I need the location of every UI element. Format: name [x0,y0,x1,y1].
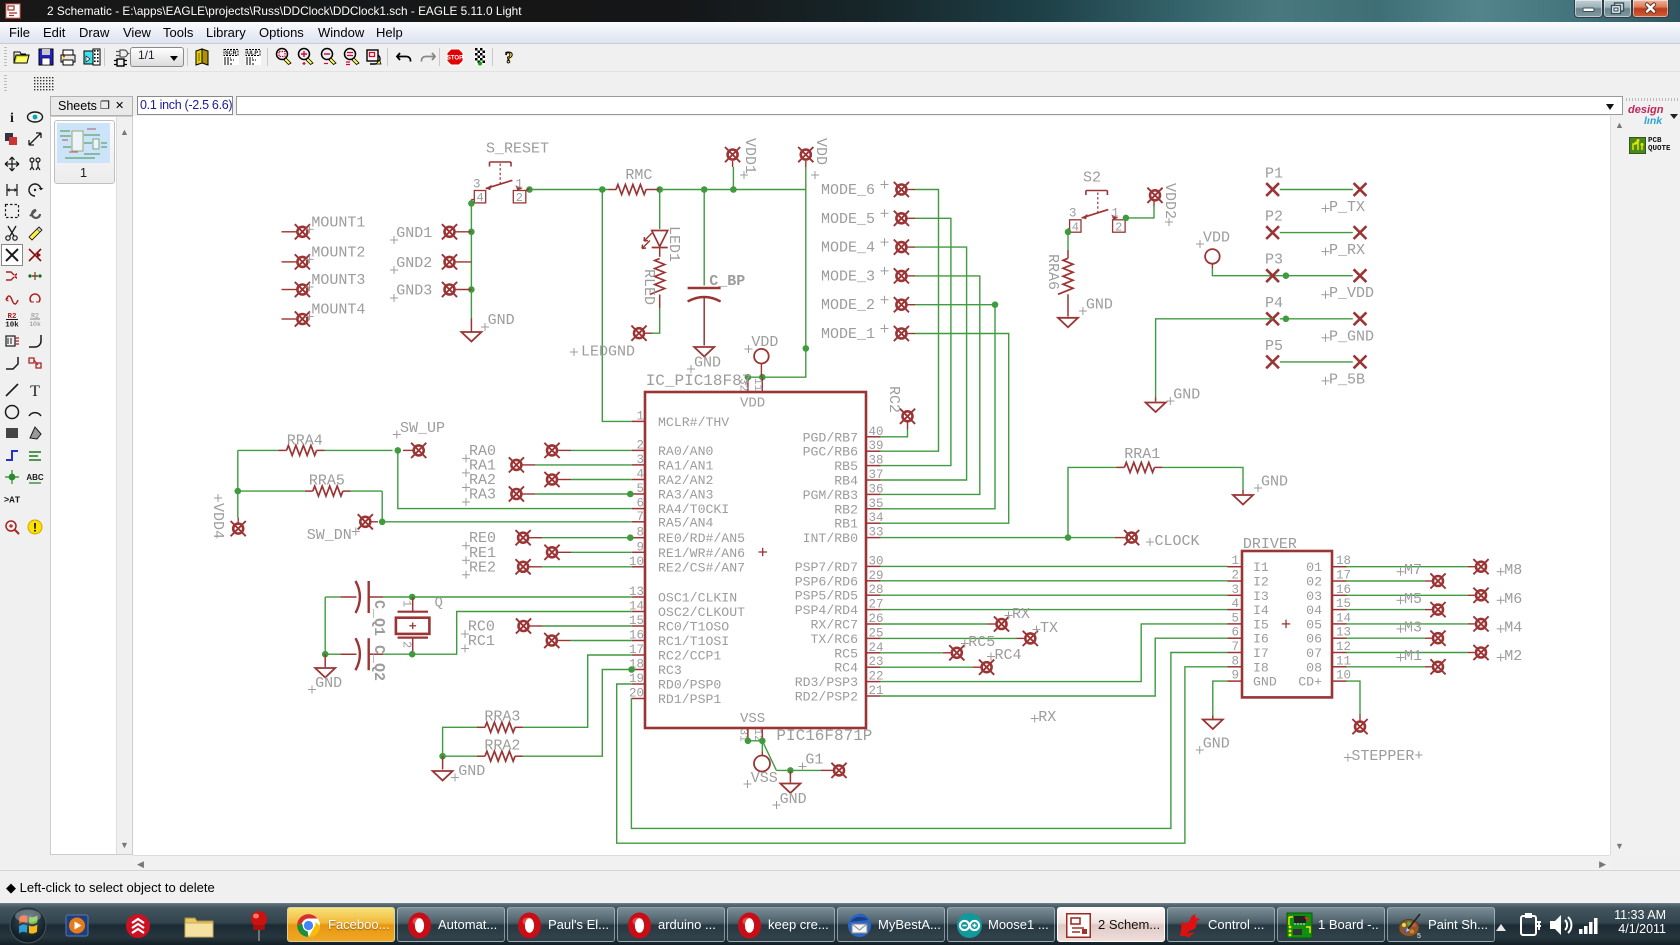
pad RA2 with wire to pin4 [544,472,559,487]
pad VDD top-right [798,147,813,162]
ground symbol driver [1203,720,1223,730]
svg-text:RB5: RB5 [834,459,858,474]
svg-text:OSC2/CLKOUT: OSC2/CLKOUT [658,605,745,620]
svg-text:SW_UP: SW_UP [400,420,445,437]
junction CLOCK [1065,534,1072,541]
svg-text:9: 9 [1231,669,1239,683]
svg-text:I7: I7 [1253,646,1269,661]
junction RRA5 left [235,488,242,495]
svg-text:>AT: >AT [4,496,21,506]
junction at GND1 [468,229,475,236]
wire pin19 to driver pin8 [617,667,1228,843]
connector P4 [1266,312,1279,325]
connector P2 [1266,226,1279,239]
svg-text:P_5B: P_5B [1329,371,1365,388]
svg-text:3: 3 [636,453,644,467]
junction pin12 [759,738,766,745]
pad SW_DN [358,514,373,529]
wire RRA4 corner down [237,450,239,491]
junction on VDD vertical [803,345,810,352]
svg-text:M6: M6 [1504,591,1522,608]
svg-text:RA2/AN2: RA2/AN2 [658,473,713,488]
svg-text:GND: GND [1203,736,1230,753]
pad MOUNT3 [295,282,310,297]
svg-text:PSP5/RD5: PSP5/RD5 [795,589,858,604]
pad RE1 with wire to pin9 [544,545,559,560]
pad RA0 with wire to pin2 [544,443,559,458]
wire RRA4 net [238,449,279,451]
pad RC2 [900,409,915,424]
wire VDD1 to rail [732,167,734,190]
svg-text:RA0/AN0: RA0/AN0 [658,444,713,459]
svg-text:RD1/PSP1: RD1/PSP1 [658,692,721,707]
svg-text:TX: TX [1040,620,1058,637]
supply VDD circle above IC [754,349,769,364]
svg-text:10k: 10k [5,322,19,330]
driver IC rectangle [1242,551,1332,697]
svg-text:P5: P5 [1265,338,1283,355]
svg-text:S_RESET: S_RESET [486,141,549,158]
svg-text:PGC/RB6: PGC/RB6 [803,445,858,460]
wire MODE_5 to IC [881,218,951,465]
svg-text:RB4: RB4 [834,474,858,489]
wire RC2 to pin40 [881,429,908,437]
svg-text:PSP7/RD7: PSP7/RD7 [795,560,858,575]
svg-text:GND: GND [694,355,721,372]
svg-text:PGD/RB7: PGD/RB7 [803,430,858,445]
svg-text:M5: M5 [1404,591,1422,608]
svg-text:MODE_5: MODE_5 [821,211,875,228]
pad G1 [831,763,846,778]
junction RRA2 left [439,753,446,760]
svg-text:RRA4: RRA4 [287,433,323,450]
svg-text:RC4: RC4 [995,647,1022,664]
svg-text:6: 6 [1231,626,1239,640]
svg-text:RB2: RB2 [834,502,858,517]
pad MODE_2 [894,297,909,312]
svg-text:STEPPER+: STEPPER+ [1351,748,1423,765]
resistor RRA1 [1124,462,1154,472]
driver origin cross [1282,620,1290,628]
svg-text:P1: P1 [1265,166,1283,183]
svg-text:GND: GND [1261,474,1288,491]
wire MODE_3 to IC [881,276,980,495]
svg-text:LEDGND: LEDGND [581,344,635,361]
svg-text:VSS: VSS [740,711,765,727]
junction on rail at x704 (C_BP branch) [701,186,708,193]
pad MODE_3 [894,268,909,283]
wire MODE_4 to IC [881,247,967,480]
svg-text:RB1: RB1 [834,517,858,532]
supply VSS ring [761,741,763,752]
pad VDD1 [725,147,740,162]
pad RC0 with wire to pin15 [516,618,531,633]
wire pin30 to driver pin1 [881,565,1228,567]
svg-text:1: 1 [636,409,644,423]
junction MODE_2 corner [992,301,999,308]
wire VDD to P3 row [1212,269,1352,276]
svg-text:4: 4 [477,191,484,205]
svg-text:9: 9 [636,540,644,554]
wire to VDD4 pad [237,491,239,517]
svg-text:RX: RX [1012,606,1030,623]
svg-text:RC2: RC2 [885,386,902,413]
pad RC1 with wire to pin16 [544,633,559,648]
pad GND2 [442,254,457,269]
svg-text:I8: I8 [1253,660,1269,675]
svg-text:RRA2: RRA2 [484,738,520,755]
switch S_RESET [471,162,529,203]
ground symbol below G1 [789,770,791,782]
pad MODE_4 [894,240,909,255]
svg-text:PSP4/RD4: PSP4/RD4 [795,603,858,618]
op-amp/IC U1 PIC16F871P rectangle [645,392,866,728]
svg-text:i: i [10,111,14,126]
svg-text:01: 01 [1306,560,1322,575]
pad MOUNT1 [295,224,310,239]
svg-text:I6: I6 [1253,632,1269,647]
wire MODE_6 to IC [881,190,939,452]
junction below switch pin4 [468,200,475,207]
svg-text:C_Q1: C_Q1 [370,600,387,636]
svg-text:VDD: VDD [1203,230,1230,247]
resistor RRA3 [485,722,515,732]
pad driver row 6 [1347,637,1425,639]
svg-text:S2: S2 [1083,170,1101,187]
svg-text:GND2: GND2 [396,255,432,272]
junction crystal pin2 [409,651,416,658]
svg-text:M4: M4 [1504,619,1522,636]
svg-text:I5: I5 [1253,617,1269,632]
wire pin22 to driver pin5 [881,624,1228,682]
pad SW_UP [411,443,426,458]
wire SW_UP to pin6 [398,450,632,508]
svg-text:RC2/CCP1: RC2/CCP1 [658,649,721,664]
svg-text:G1: G1 [805,752,823,769]
junction P4 [1283,316,1290,323]
pad RA3 with wire to pin5 [509,486,524,501]
pad RE0 with wire to pin8 [516,530,531,545]
junction SW_UP [395,447,402,454]
wire pin21 to driver pin6 [881,638,1228,696]
svg-text:P_GND: P_GND [1329,328,1374,345]
pad TX with wire [881,637,1017,639]
ground symbol RRA6 [1058,318,1078,328]
wire LED1 to RLED [659,248,661,257]
svg-text:INT/RB0: INT/RB0 [803,531,858,546]
pad RX with wire [881,623,988,625]
svg-text:RA5/AN4: RA5/AN4 [658,515,713,530]
svg-text:RC1/T1OSI: RC1/T1OSI [658,634,729,649]
svg-text:PGM/RB3: PGM/RB3 [803,488,858,503]
svg-text:GND: GND [1173,387,1200,404]
svg-text:PIC16F871P: PIC16F871P [776,727,872,745]
svg-text:MOUNT3: MOUNT3 [311,272,365,289]
svg-text:5: 5 [636,482,644,496]
svg-text:MODE_3: MODE_3 [821,268,875,285]
svg-text:MOUNT1: MOUNT1 [311,214,365,231]
wire crystal net top [325,596,340,598]
pad VDD2 [1147,188,1162,203]
svg-text:32: 32 [737,378,749,391]
svg-text:CLOCK: CLOCK [1155,533,1200,550]
junction on rail at x602 [599,186,606,193]
svg-text:C_BP: C_BP [709,273,745,290]
pad RE2 with wire to pin10 [516,559,531,574]
svg-text:RA1/AN1: RA1/AN1 [658,458,713,473]
pad MODE_1 [894,326,909,341]
svg-text:1: 1 [1112,207,1120,221]
svg-text:04: 04 [1306,603,1322,618]
wire rail to C_BP [703,190,705,286]
svg-text:Q: Q [435,595,443,611]
ground symbol crystal [324,654,326,667]
svg-text:VDD4: VDD4 [209,503,226,539]
LED LED1 [642,231,668,249]
pad driver row 2 [1347,580,1425,582]
svg-text:M1: M1 [1404,648,1422,665]
svg-text:RX: RX [1038,709,1056,726]
pad M2 wire [1347,652,1469,654]
svg-text:M2: M2 [1504,648,1522,665]
pad GND3 [442,282,457,297]
svg-text:ABC: ABC [26,473,44,482]
svg-text:GND: GND [1086,297,1113,314]
pad MODE_6 [894,182,909,197]
svg-text:RE2/CS#/AN7: RE2/CS#/AN7 [658,560,745,575]
svg-text:7: 7 [636,510,644,524]
wire driver pin10 to STEPPER [1347,681,1361,714]
svg-text:VSS: VSS [751,770,778,787]
svg-text:I4: I4 [1253,603,1269,618]
wire diagonal VSS to G1 [762,741,776,771]
svg-text:R2: R2 [31,313,39,320]
pad driver row 4 [1347,609,1425,611]
svg-text:VDD1: VDD1 [741,138,758,174]
wire crystal left vertical [324,597,326,654]
wire RRA5 to SW_DN row [381,491,383,522]
junction at IC pin 11 [759,374,766,381]
wire pin27 to driver pin4 [881,609,1228,611]
crystal Q1 [396,597,430,654]
pad LEDGND [631,326,646,341]
capacitor C_Q2 [340,638,383,670]
resistor RRA6 [1058,258,1073,294]
svg-text:STOP: STOP [447,56,463,62]
svg-text:4: 4 [636,468,644,482]
svg-text:M8: M8 [1504,562,1522,579]
svg-text:M7: M7 [1404,562,1422,579]
svg-text:06: 06 [1306,632,1322,647]
svg-text:MOUNT4: MOUNT4 [311,302,365,319]
svg-text:VDD: VDD [751,334,778,351]
svg-text:2: 2 [516,191,523,205]
driver pin stubs [1228,566,1243,568]
svg-text:08: 08 [1306,660,1322,675]
svg-text:!: ! [33,521,37,535]
svg-text:1: 1 [400,600,414,607]
wire S2 to VDD2 [1126,206,1154,218]
svg-text:RE1/WR#/AN6: RE1/WR#/AN6 [658,546,745,561]
ground symbol RRA1 [1233,495,1253,505]
svg-text:7: 7 [1231,640,1239,654]
wire GND chain vertical [470,203,472,318]
svg-text:RE0/RD#/AN5: RE0/RD#/AN5 [658,531,745,546]
svg-text:MODE_2: MODE_2 [821,297,875,314]
svg-text:10k: 10k [29,321,41,328]
pad STEPPER+ [1352,719,1367,734]
wire pin20 to driver pin7 [631,653,1227,829]
capacitor C_BP [688,288,721,346]
svg-text:VDD: VDD [812,138,829,165]
svg-text:02: 02 [1306,575,1322,590]
svg-text:GND3: GND3 [396,283,432,300]
wire stubs IC top pins [747,377,749,392]
wire MCLR vertical to pin1 [602,190,632,422]
resistor RRA5 [313,486,343,496]
svg-text:GND: GND [1253,675,1277,690]
svg-text:4: 4 [1072,220,1079,234]
svg-text:VDD2: VDD2 [1161,183,1178,219]
svg-text:C_Q2: C_Q2 [370,645,387,681]
svg-text:RE2: RE2 [469,559,496,576]
wire SW_DN to pin7 [382,521,632,523]
IC origin cross [759,548,767,556]
pad GND1 [442,224,457,239]
svg-text:OSC1/CLKIN: OSC1/CLKIN [658,591,737,606]
svg-text:I1: I1 [1253,560,1269,575]
pad CLOCK [1124,530,1139,545]
junction SW_DN [379,519,386,526]
IC left pin stubs [632,420,645,422]
svg-text:2: 2 [400,641,414,648]
switch S2 [1068,191,1126,233]
svg-text:MOUNT2: MOUNT2 [311,244,365,261]
svg-text:RD3/PSP3: RD3/PSP3 [795,675,858,690]
resistor RRA2 [485,751,515,761]
svg-text:MODE_1: MODE_1 [821,326,875,343]
svg-text:5: 5 [1231,611,1239,625]
svg-text:5: 5 [1417,933,1421,940]
svg-text:P3: P3 [1265,252,1283,269]
connector P3 [1266,269,1279,282]
svg-text:I2: I2 [1253,575,1269,590]
svg-text:3: 3 [1231,583,1239,597]
svg-text:RRA6: RRA6 [1044,254,1061,290]
svg-text:MODE_6: MODE_6 [821,182,875,199]
pad MODE_5 [894,211,909,226]
junction S2 pin1 [1123,215,1130,222]
svg-text:07: 07 [1306,646,1322,661]
svg-text:IC_PIC18F87: IC_PIC18F87 [646,372,752,390]
svg-text:DRIVER: DRIVER [1243,536,1297,553]
svg-text:SCR: SCR [225,51,237,57]
junction G1 gnd [787,767,794,774]
wire crystal net bottom [325,653,340,655]
wire RRA1 to GND [1162,467,1243,490]
junction on rail at x733 (VDD1 branch) [730,186,737,193]
pad VDD4 [231,521,246,536]
junction at pin18 [628,666,635,673]
pad RA1 with wire to pin3 [509,457,524,472]
svg-text:RLED: RLED [640,269,657,305]
wire MODE_2 to IC [881,305,995,509]
resistor RRA4 [287,445,317,455]
wire RRA2 to pin18 [523,670,632,757]
pad M6 wire [1347,594,1469,596]
wire pin33 to CLOCK [881,537,1115,539]
wire VDD vertical to IC [748,167,806,377]
connector P5 [1266,356,1279,369]
svg-text:RRA5: RRA5 [309,473,345,490]
wire crystal pin2 to pin14 [412,612,632,655]
svg-text:I3: I3 [1253,589,1269,604]
svg-text:GND1: GND1 [396,225,432,242]
svg-text:2: 2 [636,438,644,452]
svg-text:VDD: VDD [740,396,765,412]
svg-text:RA3/AN3: RA3/AN3 [658,488,713,503]
junction pin31 [745,738,752,745]
svg-text:6: 6 [636,497,644,511]
svg-text:P2: P2 [1265,209,1283,226]
svg-text:RC5: RC5 [834,646,858,661]
resistor RMC [609,189,617,191]
svg-text:2: 2 [1115,220,1122,234]
pad RC5 with wire [881,652,943,654]
svg-text:PSP6/RD6: PSP6/RD6 [795,574,858,589]
wire MCLR rail [530,189,609,191]
svg-text:1: 1 [516,178,524,192]
wire CLOCK to RRA1 [1068,467,1116,537]
svg-text:MCLR#/THV: MCLR#/THV [658,415,729,430]
junction on rail at x659 (LED branch) [656,186,663,193]
junction at switch pin1 [526,186,533,193]
svg-text:1: 1 [1231,554,1239,568]
capacitor C_Q1 [340,581,383,613]
pad MOUNT4 [295,311,310,326]
supply VDD circle near P3 [1205,249,1220,264]
svg-text:RA3: RA3 [469,487,496,504]
svg-text:3: 3 [1069,207,1077,221]
svg-text:11: 11 [751,378,763,392]
svg-text:SW_DN: SW_DN [307,527,352,544]
svg-text:RD2/PSP2: RD2/PSP2 [795,690,858,705]
junction at IC pin 32 [745,374,752,381]
svg-text:P_RX: P_RX [1329,242,1365,259]
svg-text:RC0/T1OSO: RC0/T1OSO [658,620,729,635]
svg-text:GND: GND [780,791,807,808]
svg-text:ULP: ULP [247,51,258,57]
svg-text:MODE_4: MODE_4 [821,240,875,257]
svg-text:RD0/PSP0: RD0/PSP0 [658,678,721,693]
wire IC bottom pins [747,728,749,741]
svg-text:RRA3: RRA3 [484,709,520,726]
svg-text:?: ? [505,48,514,67]
ground symbol below C_BP [694,347,714,357]
svg-text:RX/RC7: RX/RC7 [811,618,858,633]
wire driver pin9 to gnd [1213,681,1228,715]
svg-text:P4: P4 [1265,295,1283,312]
wire RLED to LEDGND pad [653,308,660,333]
junction crystal gnd [322,651,329,658]
IC right pin stubs [866,436,881,438]
svg-text:TX/RC6: TX/RC6 [811,632,859,647]
svg-text:RC4: RC4 [834,661,858,676]
junction crystal pin1 [409,594,416,601]
junction P3 [1283,272,1290,279]
wire pin29 to driver pin2 [881,580,1228,582]
resistor RLED [650,259,665,295]
